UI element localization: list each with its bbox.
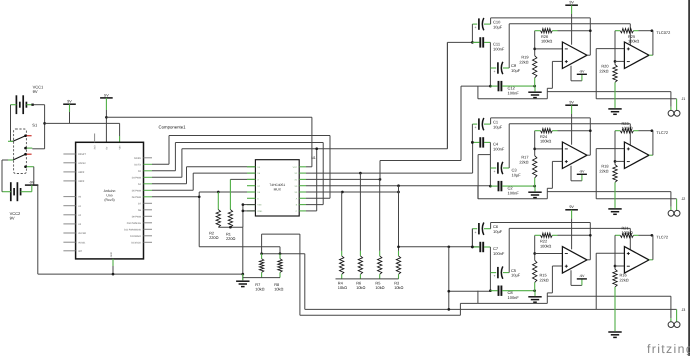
wire	[471, 229, 473, 247]
node junction	[533, 185, 536, 188]
resistor R21 100k	[615, 225, 652, 237]
svg-text:+: +	[475, 230, 477, 234]
wire	[649, 31, 653, 56]
power 9V	[63, 100, 76, 124]
wire	[243, 277, 280, 279]
node junction	[533, 289, 536, 292]
wire	[26, 104, 44, 106]
svg-text:Arduino: Arduino	[104, 189, 116, 193]
ground	[236, 274, 249, 287]
svg-text:D5 PWM: D5 PWM	[132, 189, 141, 192]
svg-text:3V3: 3V3	[94, 145, 97, 150]
svg-text:D1/TX: D1/TX	[134, 163, 141, 166]
svg-text:MUX: MUX	[274, 187, 282, 191]
node junction	[589, 234, 592, 237]
svg-text:VIN: VIN	[119, 145, 122, 149]
node junction	[241, 273, 244, 276]
svg-text:VREF: VREF	[78, 180, 85, 183]
svg-text:Uno: Uno	[106, 193, 112, 197]
power -9V	[25, 180, 38, 191]
svg-text:AREF: AREF	[78, 171, 85, 174]
node junction	[260, 252, 263, 255]
svg-text:+: +	[475, 126, 477, 130]
ground	[528, 291, 541, 303]
op-amp TLC72 B	[624, 247, 649, 274]
capacitor C6	[472, 223, 502, 235]
wire	[491, 18, 591, 55]
capacitor C7	[472, 242, 504, 256]
node junction	[651, 29, 654, 32]
wire b1 stage2 feed	[380, 86, 490, 179]
wire	[11, 140, 14, 142]
wire ground rail	[38, 273, 243, 275]
svg-text:22kΩ: 22kΩ	[519, 59, 528, 64]
svg-text:10kΩ: 10kΩ	[394, 285, 403, 290]
node junction	[379, 178, 382, 181]
svg-text:10µF: 10µF	[493, 24, 503, 29]
wire	[547, 161, 562, 198]
node junction	[279, 252, 282, 255]
node junction	[533, 252, 536, 255]
wire	[478, 291, 547, 304]
svg-text:GND: GND	[257, 210, 262, 213]
arduino right pins	[124, 157, 152, 245]
capacitor C11	[472, 37, 504, 51]
svg-text:100nF: 100nF	[493, 46, 505, 51]
resistor R3 10k	[394, 186, 403, 290]
wire	[615, 160, 624, 162]
resistor R23 100k	[615, 121, 652, 133]
wire	[218, 226, 243, 228]
ground	[608, 287, 621, 338]
wire	[547, 61, 562, 98]
ic U2 Arduino Uno (Rev3)	[76, 142, 144, 259]
svg-text:TLC72: TLC72	[656, 235, 668, 240]
svg-text:10µF: 10µF	[512, 173, 522, 178]
wire	[491, 223, 591, 260]
wire 5V rail	[106, 116, 312, 118]
svg-text:9V: 9V	[569, 205, 574, 209]
node junction	[533, 48, 536, 51]
capacitor C12	[490, 81, 534, 96]
node junction	[397, 245, 400, 248]
wire	[509, 24, 630, 68]
wire	[587, 154, 590, 156]
svg-text:AVSS1: AVSS1	[78, 241, 86, 244]
node junction	[229, 226, 232, 229]
wire mux GND to gnd	[243, 210, 256, 212]
svg-text:100nF: 100nF	[508, 295, 520, 300]
wire D3 net	[152, 42, 480, 177]
wire	[446, 42, 448, 148]
svg-text:fritzing: fritzing	[647, 342, 690, 356]
svg-text:100nF: 100nF	[508, 190, 520, 195]
power -9V	[571, 66, 587, 81]
svg-text:5V: 5V	[104, 93, 109, 97]
node junction	[397, 191, 400, 194]
svg-text:+: +	[494, 274, 496, 278]
svg-text:22kΩ: 22kΩ	[620, 277, 629, 282]
wire	[509, 228, 630, 272]
node junction	[651, 129, 654, 132]
svg-text:+: +	[475, 26, 477, 30]
svg-text:D6 PWM: D6 PWM	[132, 196, 141, 199]
ground	[608, 82, 621, 114]
resistor R1 220	[226, 179, 235, 241]
wire	[230, 178, 255, 180]
node junction	[614, 265, 617, 268]
svg-text:220Ω: 220Ω	[209, 235, 218, 240]
node junction	[397, 184, 400, 187]
svg-text:(Rev3): (Rev3)	[104, 198, 114, 202]
svg-text:10kΩ: 10kΩ	[356, 285, 365, 290]
svg-text:100kΩ: 100kΩ	[622, 230, 633, 235]
svg-text:+: +	[494, 170, 496, 174]
ground	[528, 186, 541, 198]
wire D5 net	[152, 173, 255, 190]
wire b2 stage1 feed	[472, 142, 474, 173]
wire	[37, 185, 39, 274]
node junction	[112, 273, 115, 276]
label fritzing	[647, 342, 690, 356]
svg-text:22kΩ: 22kΩ	[519, 159, 528, 164]
wire	[242, 227, 244, 280]
label TLC72	[656, 130, 668, 135]
frame right border	[688, 0, 690, 356]
wire	[478, 186, 547, 199]
wire mux VEE to gnd	[243, 205, 256, 228]
svg-text:D12/MISO: D12/MISO	[130, 235, 141, 238]
wire	[649, 131, 653, 156]
svg-text:TLC72: TLC72	[656, 130, 668, 135]
svg-text:10µF: 10µF	[511, 68, 521, 73]
node junction	[105, 116, 108, 119]
wire	[547, 266, 562, 303]
svg-text:J1: J1	[682, 97, 686, 101]
node junction	[589, 29, 592, 32]
power -9V	[571, 270, 587, 285]
wire	[615, 60, 624, 62]
node junction	[489, 185, 492, 188]
wire	[509, 124, 630, 168]
op-amp TLC072 B	[624, 42, 649, 69]
node junction	[341, 191, 344, 194]
svg-text:D0/RX: D0/RX	[134, 157, 141, 160]
resistor R16 22k	[613, 235, 629, 287]
node junction	[471, 41, 474, 44]
svg-text:22kΩ: 22kΩ	[540, 277, 549, 282]
label TLC72	[656, 235, 668, 240]
svg-text:-9V: -9V	[579, 70, 585, 74]
wire	[547, 296, 671, 322]
power 9V	[565, 1, 578, 45]
node junction	[471, 141, 474, 144]
svg-text:22kΩ: 22kΩ	[599, 68, 608, 73]
resistor R24 100k	[535, 129, 591, 144]
arduino bottom pin GND	[110, 252, 113, 274]
svg-text:-9V: -9V	[579, 170, 585, 174]
svg-text:J2: J2	[682, 197, 686, 201]
svg-text:D13/SCK: D13/SCK	[131, 241, 141, 244]
resistor R25 100k	[615, 29, 652, 44]
svg-text:AVCSR: AVCSR	[78, 232, 86, 235]
node junction	[471, 245, 474, 248]
connector J1	[668, 97, 685, 116]
ground	[608, 182, 621, 214]
wire	[471, 24, 473, 42]
svg-text:10µF: 10µF	[493, 229, 503, 234]
node junction	[43, 122, 46, 125]
node junction	[614, 60, 617, 63]
svg-text:10kΩ: 10kΩ	[255, 287, 264, 292]
op-amp TLC72 B	[624, 142, 649, 169]
svg-text:74HC4051: 74HC4051	[269, 183, 285, 187]
resistor R4 10k	[338, 192, 347, 290]
svg-text:100kΩ: 100kΩ	[628, 39, 639, 44]
svg-text:100kΩ: 100kΩ	[622, 125, 633, 130]
resistor R7 10k	[255, 254, 264, 292]
capacitor C9	[490, 62, 520, 74]
svg-text:100kΩ: 100kΩ	[540, 139, 551, 144]
wire	[262, 234, 300, 315]
capacitor C3	[490, 162, 521, 178]
arduino left pins	[63, 153, 86, 253]
svg-text:D3 PWM: D3 PWM	[132, 176, 141, 179]
svg-text:10kΩ: 10kΩ	[274, 287, 283, 292]
wire	[11, 104, 17, 106]
svg-text:9V: 9V	[67, 100, 72, 104]
wire	[10, 105, 12, 142]
wire	[33, 167, 35, 185]
wire	[449, 247, 491, 310]
capacitor C4	[472, 137, 504, 151]
wire	[535, 253, 563, 255]
svg-text:5V: 5V	[105, 146, 108, 149]
op-amp TLC072 A	[562, 42, 587, 69]
resistor R26 100k	[535, 29, 591, 44]
node junction	[242, 203, 245, 206]
wire	[535, 148, 563, 150]
wire	[587, 259, 590, 261]
wire	[596, 49, 676, 111]
svg-text:100kΩ: 100kΩ	[541, 39, 552, 44]
wire	[596, 149, 676, 211]
wire	[535, 48, 563, 50]
wire mux X1 row	[306, 178, 380, 180]
connector J2	[668, 197, 685, 216]
node junction	[471, 141, 474, 144]
svg-text:9V: 9V	[10, 215, 15, 220]
wire mux X3 row	[306, 191, 399, 193]
resistor R2 220	[209, 192, 220, 240]
resistor R17 22k	[519, 131, 537, 186]
wire	[587, 54, 590, 56]
resistor R22 100k	[535, 233, 591, 248]
svg-text:100nF: 100nF	[508, 90, 520, 95]
wire	[478, 155, 490, 199]
wire	[596, 253, 676, 322]
wire D1 net	[152, 136, 330, 199]
power 9V	[565, 205, 578, 249]
svg-text:10µF: 10µF	[511, 273, 521, 278]
svg-text:GND: GND	[110, 252, 113, 257]
node junction	[359, 172, 362, 175]
svg-text:100nF: 100nF	[493, 146, 505, 151]
wire R8 rail	[305, 308, 677, 310]
node junction	[447, 290, 450, 293]
svg-text:D10 PWM/SS: D10 PWM/SS	[127, 222, 142, 225]
label N1	[311, 156, 316, 160]
node junction	[533, 85, 536, 88]
wire	[489, 142, 491, 186]
svg-text:INT: INT	[78, 250, 82, 253]
svg-text:100kΩ: 100kΩ	[540, 243, 551, 248]
svg-text:+: +	[494, 70, 496, 74]
wire	[262, 254, 305, 310]
node junction	[614, 160, 617, 163]
svg-text:J3: J3	[682, 308, 686, 312]
node junction	[447, 308, 450, 311]
wire	[2, 191, 11, 193]
wire	[399, 246, 479, 248]
battery VCC2 9V	[10, 182, 21, 220]
node junction	[651, 234, 654, 237]
connector J3	[668, 308, 685, 328]
svg-text:9V: 9V	[569, 101, 574, 105]
svg-text:ADC62: ADC62	[78, 162, 86, 165]
wire	[471, 229, 473, 247]
wire VIN drop	[119, 123, 121, 142]
capacitor C10	[472, 18, 502, 30]
svg-text:9V: 9V	[569, 1, 574, 5]
wire	[44, 105, 46, 149]
svg-text:-9V: -9V	[29, 180, 35, 184]
svg-text:TLC072: TLC072	[656, 30, 670, 35]
svg-text:-9V: -9V	[579, 274, 585, 278]
svg-text:10kΩ: 10kΩ	[338, 285, 347, 290]
svg-text:9V: 9V	[33, 89, 38, 94]
mux left pins	[247, 166, 263, 213]
wire	[21, 191, 32, 193]
wire mux C select	[306, 149, 317, 211]
wire D2 net	[152, 143, 323, 205]
svg-text:VCC: VCC	[293, 166, 298, 169]
svg-text:22kΩ: 22kΩ	[599, 168, 608, 173]
op-amp TLC72 A	[562, 142, 587, 169]
wire	[489, 42, 491, 86]
node junction	[489, 289, 492, 292]
wire 9V rail	[45, 122, 120, 124]
label TLC072	[656, 30, 670, 35]
wire mux X2 row	[306, 172, 473, 174]
wire resistor bottom rail	[336, 278, 399, 280]
wire R7 rail	[300, 303, 478, 315]
svg-text:RESET: RESET	[78, 153, 86, 156]
capacitor C2	[490, 181, 534, 196]
battery VCC1 9V	[16, 85, 44, 114]
node junction	[489, 85, 492, 88]
wire	[615, 265, 624, 267]
svg-text:S1: S1	[32, 122, 38, 127]
switch S1 (DPDT)	[8, 122, 38, 173]
power -9V	[571, 166, 587, 181]
wire	[547, 192, 671, 211]
op-amp TLC72 A	[562, 247, 587, 274]
power 5V	[100, 93, 113, 142]
resistor R18 22k	[599, 131, 617, 183]
resistor R5 10k	[375, 179, 384, 290]
node junction	[533, 148, 536, 151]
svg-text:10kΩ: 10kΩ	[375, 285, 384, 290]
svg-text:220Ω: 220Ω	[226, 236, 235, 241]
arduino top pins	[94, 134, 122, 150]
wire	[491, 118, 591, 155]
svg-text:10µF: 10µF	[493, 124, 503, 129]
wire	[471, 124, 473, 142]
node junction	[242, 210, 245, 213]
wire mux X0 row	[306, 185, 491, 187]
node junction	[447, 245, 450, 248]
wire	[32, 148, 44, 150]
svg-text:D9 PWM: D9 PWM	[132, 215, 141, 218]
capacitor C5	[490, 266, 520, 278]
wire	[649, 235, 653, 259]
resistor R19 22k	[519, 31, 537, 86]
resistor R8 10k	[274, 254, 283, 292]
wire D6 net	[152, 192, 280, 254]
resistor R15 22k	[533, 235, 549, 290]
node junction	[471, 246, 474, 249]
wire	[2, 160, 8, 192]
label Componente1	[159, 125, 187, 130]
ic N1 74HC4051 MUX	[255, 160, 299, 216]
wire D4 net	[152, 167, 255, 184]
wire	[489, 247, 491, 291]
svg-text:100nF: 100nF	[493, 251, 505, 256]
svg-text:VEE: VEE	[257, 204, 262, 207]
ground	[528, 86, 541, 98]
capacitor C1	[472, 118, 502, 130]
svg-text:Componente1: Componente1	[159, 125, 187, 130]
wire	[547, 92, 671, 111]
node junction	[589, 129, 592, 132]
svg-text:D11 PWM/MOSI: D11 PWM/MOSI	[124, 228, 141, 231]
node junction	[198, 195, 201, 198]
node junction	[315, 147, 318, 150]
wire	[478, 86, 547, 99]
power 9V	[565, 101, 578, 145]
resistor R6 10k	[356, 173, 365, 290]
wire 5V to mux	[306, 117, 312, 167]
capacitor C8	[490, 286, 534, 301]
mux right pins	[293, 166, 306, 213]
node junction	[217, 191, 220, 194]
resistor R20 22k	[599, 31, 617, 83]
